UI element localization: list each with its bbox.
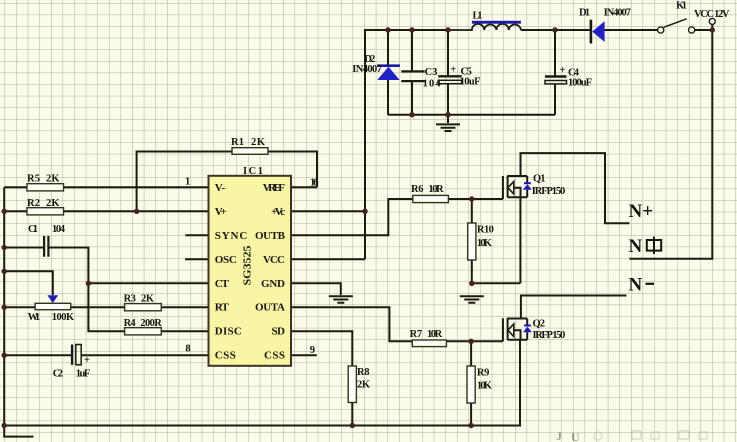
svg-text:VREF: VREF <box>263 182 286 194</box>
svg-text:R9: R9 <box>477 367 490 378</box>
svg-text:OSC: OSC <box>215 254 237 266</box>
svg-text:CT: CT <box>215 278 230 290</box>
svg-text:2K: 2K <box>46 173 60 184</box>
svg-text:C2: C2 <box>53 368 63 379</box>
svg-text:L1: L1 <box>473 11 483 22</box>
svg-text:IN4007: IN4007 <box>352 64 382 75</box>
svg-text:D1: D1 <box>579 7 590 18</box>
svg-text:+: + <box>450 65 456 76</box>
svg-text:R1: R1 <box>231 137 244 148</box>
svg-text:IN4007: IN4007 <box>604 7 631 18</box>
svg-text:9: 9 <box>310 345 315 356</box>
svg-text:V+: V+ <box>215 206 227 218</box>
svg-text:10K: 10K <box>477 238 493 249</box>
svg-text:Q2: Q2 <box>533 318 546 329</box>
svg-text:2K: 2K <box>251 137 266 148</box>
svg-text:K1: K1 <box>676 0 687 11</box>
svg-text:R7: R7 <box>410 329 423 340</box>
svg-text:+: + <box>560 65 566 76</box>
svg-text:10uF: 10uF <box>460 77 481 88</box>
svg-text:SYNC: SYNC <box>215 230 248 242</box>
svg-text:R3: R3 <box>124 293 136 304</box>
svg-text:16: 16 <box>310 177 319 188</box>
svg-text:CSS: CSS <box>215 350 236 362</box>
svg-text:R8: R8 <box>357 367 370 378</box>
svg-text:C3: C3 <box>425 67 438 78</box>
svg-text:C4: C4 <box>568 67 580 78</box>
svg-text:10R: 10R <box>427 329 443 340</box>
svg-text:R2: R2 <box>27 198 40 209</box>
svg-text:IRFP 150: IRFP 150 <box>533 330 566 341</box>
svg-text:SG3525: SG3525 <box>242 245 254 286</box>
svg-text:N: N <box>629 236 643 257</box>
svg-text:DISC: DISC <box>215 326 242 338</box>
svg-text:C1: C1 <box>28 224 38 235</box>
svg-text:1uF: 1uF <box>76 368 91 379</box>
svg-text:U: U <box>571 430 580 442</box>
svg-text:100K: 100K <box>52 312 75 323</box>
svg-text:+Vc: +Vc <box>271 206 285 218</box>
svg-text:CSS: CSS <box>264 350 285 362</box>
svg-text:10R: 10R <box>428 184 444 195</box>
svg-text:W1: W1 <box>28 312 40 323</box>
svg-text:104: 104 <box>52 224 66 235</box>
svg-text:2K: 2K <box>357 380 371 391</box>
svg-text:VCC: VCC <box>263 254 285 266</box>
svg-text:OUTB: OUTB <box>255 230 286 242</box>
svg-text:200R: 200R <box>140 318 162 329</box>
svg-text:Q1: Q1 <box>533 174 546 185</box>
svg-text:RT: RT <box>215 302 230 314</box>
svg-text:IRFP150: IRFP150 <box>532 186 565 197</box>
svg-text:+: + <box>84 355 90 366</box>
svg-text:VCC 12V: VCC 12V <box>694 9 730 20</box>
svg-text:R4: R4 <box>124 318 137 329</box>
svg-text:N: N <box>629 274 643 295</box>
svg-text:GND: GND <box>261 278 285 290</box>
svg-text:R10: R10 <box>477 225 494 236</box>
svg-text:2K: 2K <box>141 293 155 304</box>
svg-text:2K: 2K <box>46 198 60 209</box>
svg-text:8: 8 <box>185 343 190 354</box>
svg-text:10K: 10K <box>477 380 493 391</box>
svg-text:R5: R5 <box>27 173 40 184</box>
svg-text:OUTA: OUTA <box>255 302 285 314</box>
svg-text:104: 104 <box>423 78 442 89</box>
svg-text:N+: N+ <box>629 201 654 222</box>
svg-text:SD: SD <box>272 326 286 338</box>
svg-text:V-: V- <box>215 182 226 194</box>
svg-text:1: 1 <box>185 176 190 187</box>
svg-text:R6: R6 <box>411 184 424 195</box>
svg-text:IC1: IC1 <box>243 166 263 177</box>
svg-text:J: J <box>556 429 562 442</box>
svg-text:100uF: 100uF <box>568 78 592 89</box>
